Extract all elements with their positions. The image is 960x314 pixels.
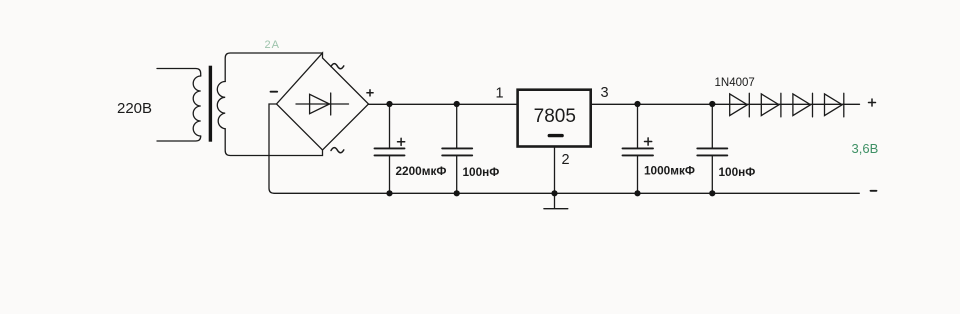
svg-text:3,6В: 3,6В (852, 141, 879, 156)
svg-text:3: 3 (600, 85, 608, 101)
svg-text:220В: 220В (117, 100, 152, 117)
svg-text:1N4007: 1N4007 (715, 77, 755, 89)
svg-text:100нФ: 100нФ (463, 165, 500, 179)
svg-text:2: 2 (561, 152, 569, 168)
svg-text:100нФ: 100нФ (719, 165, 756, 179)
svg-text:2200мкФ: 2200мкФ (396, 164, 447, 178)
svg-text:1: 1 (495, 86, 503, 102)
svg-text:7805: 7805 (534, 106, 576, 127)
svg-text:2А: 2А (265, 39, 280, 51)
svg-text:1000мкФ: 1000мкФ (644, 164, 695, 178)
